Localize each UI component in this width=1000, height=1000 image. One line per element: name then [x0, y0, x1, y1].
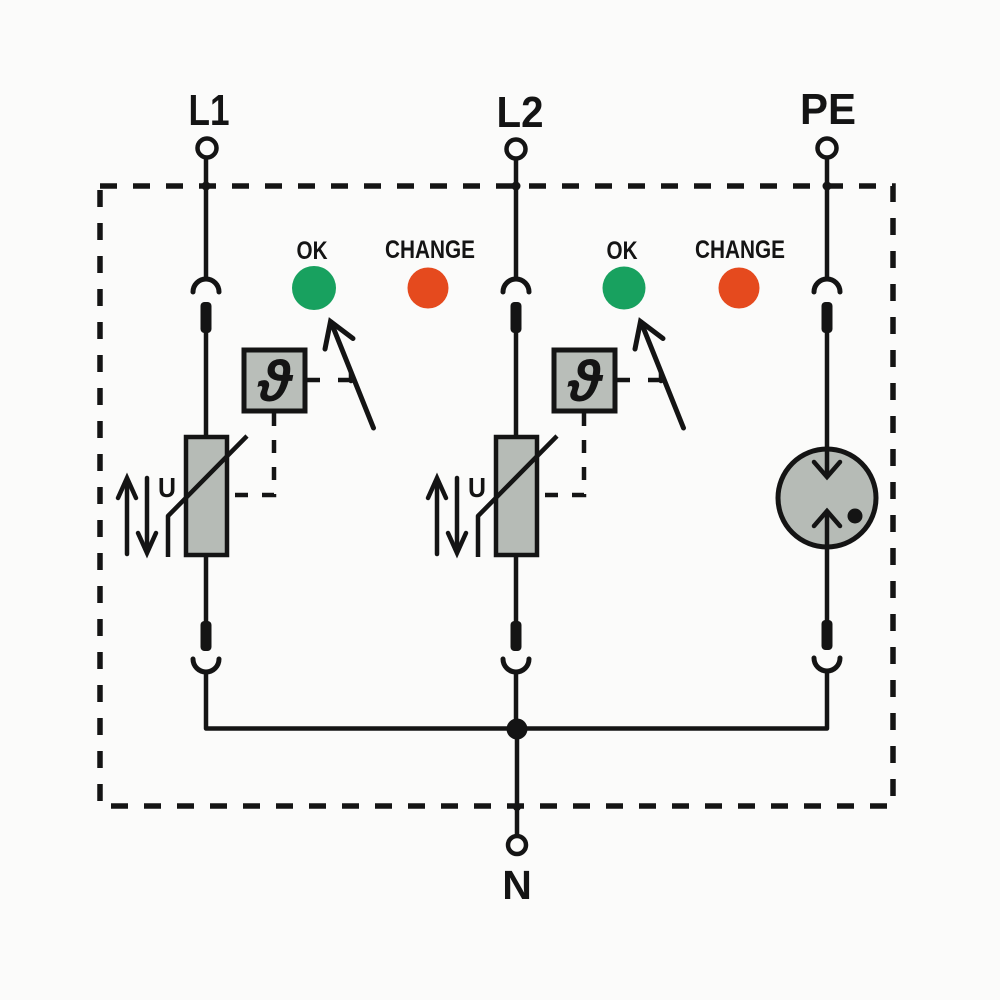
- gas discharge tube upper electrode arrow: [814, 451, 840, 477]
- svg-text:OK: OK: [297, 237, 328, 265]
- wire lower socket to bus junction L2: [514, 674, 519, 729]
- terminal N: [508, 836, 526, 854]
- plug-in disconnect pin (lower) L1: [201, 621, 212, 651]
- plug-in disconnect socket (lower) L1: [193, 659, 219, 672]
- thermal disconnect box U2: [554, 350, 615, 411]
- wire upper pin to varistor L2: [514, 330, 519, 440]
- svg-text:ϑ: ϑ: [257, 349, 294, 414]
- wire varistor to lower pin L1: [204, 555, 209, 624]
- linkage end tick L1: [349, 372, 354, 381]
- wire L2 terminal to upper disconnect: [514, 159, 519, 279]
- svg-text:N: N: [502, 862, 532, 908]
- junction at border crossing N: [513, 803, 521, 811]
- thermal disconnect box U1: [244, 350, 305, 411]
- mechanical linkage dashes (box to varistor) L1: [229, 413, 274, 495]
- svg-text:L1: L1: [189, 86, 230, 135]
- plug-in disconnect pin (lower) PE: [822, 620, 833, 650]
- svg-text:ϑ: ϑ: [567, 349, 604, 414]
- svg-text:L2: L2: [497, 88, 544, 137]
- terminal L2: [507, 140, 526, 159]
- plug-in disconnect socket (upper) PE: [814, 279, 840, 292]
- plug-in disconnect pin (upper) L2: [511, 302, 522, 333]
- voltage arrow up (U symbol) L2: [428, 478, 446, 554]
- gas discharge tube trigger dot: [848, 509, 863, 524]
- plug-in disconnect pin (upper) PE: [822, 302, 833, 333]
- varistor RV2 diagonal stroke: [478, 436, 557, 557]
- plug-in disconnect socket (lower) PE: [814, 658, 840, 671]
- voltage arrow up (U symbol) L1: [118, 478, 136, 554]
- wire gas discharge tube to lower pin PE: [825, 547, 830, 623]
- gas discharge tube lower electrode arrow: [814, 511, 840, 545]
- svg-text:CHANGE: CHANGE: [385, 236, 475, 264]
- switch arm arrow L1: [325, 322, 374, 429]
- green LED OK (L1 group): [292, 266, 336, 310]
- mechanical linkage dashes (box to switch) L2: [615, 378, 662, 383]
- voltage arrow down (U symbol) L1: [138, 478, 156, 553]
- terminal L1: [198, 139, 217, 158]
- varistor RV2 body: [496, 437, 537, 555]
- voltage arrow down (U symbol) L2: [448, 478, 466, 553]
- linkage end tick L2: [659, 372, 664, 381]
- wire junction to N terminal: [515, 729, 520, 835]
- plug-in disconnect socket (lower) L2: [503, 659, 529, 672]
- terminal PE: [818, 139, 837, 158]
- svg-text:CHANGE: CHANGE: [695, 236, 785, 264]
- wire PE terminal to upper disconnect: [825, 158, 830, 279]
- varistor RV1 body: [186, 437, 227, 555]
- wire L1 terminal to upper disconnect: [204, 158, 209, 279]
- plug-in disconnect pin (lower) L2: [511, 621, 522, 651]
- svg-text:U: U: [468, 472, 486, 503]
- bus junction node: [507, 719, 528, 740]
- svg-text:U: U: [158, 472, 176, 503]
- red LED CHANGE (L1 group): [408, 268, 449, 309]
- svg-text:OK: OK: [607, 237, 638, 265]
- junction at border crossing PE: [823, 182, 832, 191]
- plug-in disconnect socket (upper) L2: [503, 279, 529, 292]
- wire lower socket to bus L1: [206, 674, 515, 729]
- svg-text:PE: PE: [800, 85, 856, 134]
- wire upper pin to gas discharge tube PE: [825, 330, 830, 452]
- plug-in disconnect pin (upper) L1: [201, 302, 212, 333]
- green LED OK (L2 group): [603, 267, 646, 310]
- wire upper pin to varistor L1: [204, 330, 209, 440]
- plug-in disconnect socket (upper) L1: [193, 279, 219, 292]
- mechanical linkage dashes (box to varistor) L2: [539, 413, 584, 495]
- wire lower socket to bus PE: [518, 673, 827, 729]
- device enclosure dashed outline: [100, 186, 893, 806]
- gas discharge tube F1 body: [778, 449, 876, 547]
- switch arm arrow L2: [635, 322, 684, 429]
- junction at border crossing L2: [512, 182, 521, 191]
- junction at border crossing L1: [202, 182, 211, 191]
- mechanical linkage dashes (box to switch) L1: [305, 378, 352, 383]
- wire varistor to lower pin L2: [514, 555, 519, 624]
- varistor RV1 diagonal stroke: [168, 436, 247, 557]
- red LED CHANGE (L2 group): [719, 268, 760, 309]
